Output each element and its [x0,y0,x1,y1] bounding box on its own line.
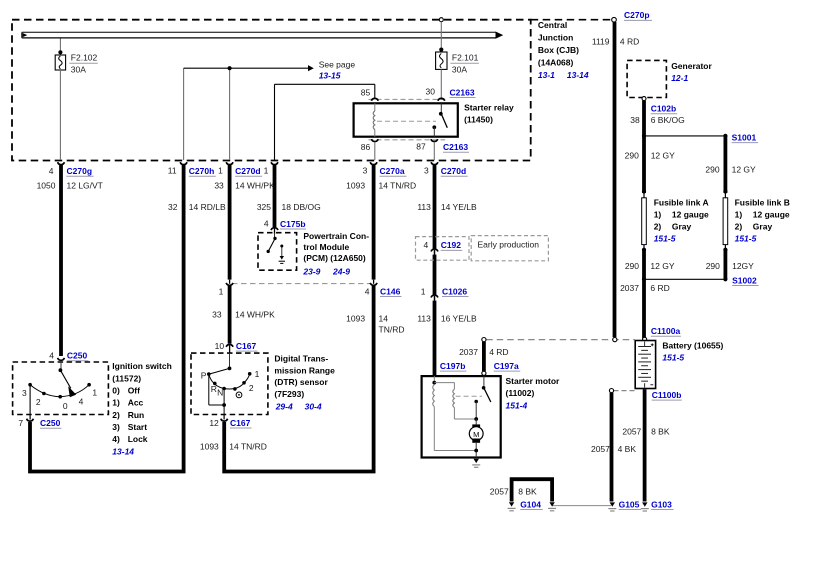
connector C197a label [494,361,521,371]
svg-text:Central: Central [538,20,567,30]
starter solenoid mechanical link [456,395,482,397]
svg-text:14 YE/LB: 14 YE/LB [441,202,477,212]
connector C250 arrow (pin 4) [58,358,65,360]
wire fuse F2.101 to relay pin 30 [440,69,442,98]
wire C270d pin3 middle segment [433,255,437,295]
starter relay C2163 connector dashes (bottom) [369,139,446,141]
connector arrow at CJB exit C175b feed [271,162,278,164]
DTR contact D arc dot [233,387,237,391]
wire label 1093 14 TN/RD (upper) [346,181,416,191]
svg-text:Ignition switch: Ignition switch [112,361,172,371]
svg-text:(DTR) sensor: (DTR) sensor [274,377,328,387]
starter motor name label [506,376,561,410]
connector C1100b label [652,390,682,400]
ignition switch contact 2 [42,392,46,396]
svg-text:1): 1) [735,209,743,219]
svg-text:Starter relay: Starter relay [464,103,514,113]
svg-text:C270d: C270d [441,166,467,176]
svg-text:38: 38 [630,115,640,125]
wire label 2057 8 BK (G104) [490,486,537,496]
wire fuse F2.102 to C270g [59,70,61,160]
wire battery positive to starter dashed (2037 4 RD) [486,339,635,341]
fuse F2.102 value label [69,53,98,75]
svg-text:10: 10 [215,341,225,351]
wire label 1050 12 LG/VT [37,181,103,191]
svg-text:P: P [201,370,207,380]
starter relay coil [373,103,375,136]
svg-text:3: 3 [363,166,368,176]
svg-text:Fusible link A: Fusible link A [654,197,709,207]
svg-text:Acc: Acc [128,398,144,408]
node S1001 tie line [644,135,725,137]
svg-text:1093: 1093 [200,442,219,452]
starter relay mechanical link [377,120,436,122]
svg-text:14 WH/PK: 14 WH/PK [235,310,275,320]
svg-text:Starter motor: Starter motor [506,376,561,386]
wire bus to fuse F2.102 [59,39,61,56]
svg-text:C197b: C197b [440,361,466,371]
svg-text:2057: 2057 [622,427,641,437]
junction C270d riser / see-page net [228,66,232,70]
svg-text:113: 113 [417,202,431,212]
wire label 1119 4 RD [592,37,639,47]
svg-text:S1001: S1001 [732,132,757,142]
wire label 113 16 YE/LB [417,314,477,324]
connector C167 label (bottom) [209,418,251,428]
svg-text:S1002: S1002 [732,275,757,285]
ignition switch contact 0 [58,395,62,399]
connector arrow at CJB exit C270d pin1 [226,162,233,164]
svg-text:1050: 1050 [37,181,56,191]
svg-text:(14A068): (14A068) [538,58,574,68]
ring junction C270p wire on 4 RD feed [613,338,617,342]
svg-text:12 gauge: 12 gauge [672,209,709,219]
battery name label [662,340,723,362]
wire ignition switch pin 7 to C270h (32 14 RD/LB) [30,165,184,472]
wire generator to S1001 junction (38 6 BK/OG) [642,101,646,193]
svg-text:C250: C250 [67,351,88,361]
svg-text:1093: 1093 [346,181,365,191]
starter feed pigtail wire [482,342,486,371]
wire label 325 18 DB/OG [257,202,321,212]
junction at fuse F2.102 input [58,50,62,54]
connector C167 label (top) [215,341,258,351]
ring at 4 BK wire top [609,389,613,393]
svg-text:C270h: C270h [189,166,215,176]
wire to G105 (2057 4 BK) [610,393,614,502]
connector C1026 label [421,286,469,296]
wire fusible link A to S1002 [642,249,646,341]
svg-text:1): 1) [112,398,120,408]
connector C250 label (bottom) [18,418,61,428]
svg-text:Battery (10655): Battery (10655) [662,340,723,350]
ground tie line G104 to G105 [552,505,611,507]
svg-text:12GY: 12GY [732,261,754,271]
svg-text:12 GY: 12 GY [732,164,756,174]
svg-text:4: 4 [79,397,84,407]
svg-text:13-15: 13-15 [319,70,341,80]
svg-text:Digital Trans-: Digital Trans- [274,354,328,364]
wire CJB top edge to fuse F2.101 [440,22,442,52]
fusible link A label [654,197,709,243]
svg-text:30A: 30A [71,65,86,75]
svg-text:12 LG/VT: 12 LG/VT [67,181,103,191]
svg-text:1): 1) [654,209,662,219]
starter solenoid pull-in coil [433,385,435,407]
svg-text:Run: Run [128,410,145,420]
wire C270d pin3 lower segment to starter motor [433,301,437,376]
starter coil1 return wire [434,407,476,451]
ignition switch name and positions [112,361,172,456]
connector C146 arrow on TN/RD wire [370,280,377,286]
wire battery negative to G103 (2057 8 BK) [643,389,647,501]
DTR contact N [222,387,226,391]
DTR sensor rotor [210,353,232,374]
See page reference text [319,59,356,80]
svg-text:8 BK: 8 BK [518,486,537,496]
svg-text:C270g: C270g [67,166,93,176]
starter relay C2163 connector dashes (top) [369,98,446,100]
svg-text:(PCM) (12A650): (PCM) (12A650) [303,253,366,263]
DTR contact R [213,382,217,386]
ring terminal at CJB top edge for fuse F2.101 feed [439,18,443,22]
wire label 290 12 GY (link A top) [625,150,676,160]
ground G104 label [520,499,543,509]
svg-text:1: 1 [421,286,426,296]
svg-text:C1100a: C1100a [651,326,681,336]
starter relay contact to pin 87 [432,125,436,136]
DTR sensor contact arc [209,374,250,389]
battery BT1 (10655) [635,341,655,389]
svg-text:32: 32 [168,202,178,212]
ignition switch contact arc [30,385,89,397]
starter solenoid hold-in coil [453,389,455,407]
wire label 290 12GY (link B bottom) [706,261,754,271]
svg-text:12-1: 12-1 [671,73,688,83]
wire C270d pin3 upper segment [433,165,437,249]
wire fusible link B to S1002 [724,249,728,279]
svg-text:4: 4 [365,286,370,296]
ground G104 left symbol [508,502,516,511]
connector arrow at CJB exit C270a [370,162,377,164]
svg-text:86: 86 [361,142,371,152]
svg-text:1093: 1093 [346,314,365,324]
svg-text:290: 290 [705,164,719,174]
wire relay pin 87 to CJB edge [433,142,435,160]
svg-text:C102b: C102b [651,104,677,114]
svg-text:1: 1 [218,166,223,176]
svg-text:(11450): (11450) [464,115,493,125]
junction at S1002 left [642,277,646,281]
DTR sensor U3 (7F293) dashed box [191,353,268,414]
svg-text:Off: Off [128,385,140,395]
svg-text:2: 2 [249,383,254,393]
ignition switch contact 3 [28,383,32,387]
svg-text:Early production: Early production [478,239,540,249]
svg-text:G103: G103 [651,499,672,509]
connector C250 label (top) [49,351,88,361]
svg-text:4: 4 [264,218,269,228]
svg-text:C2163: C2163 [443,142,468,152]
svg-text:Gray: Gray [672,221,692,231]
ring at starter C197a [482,371,486,375]
svg-text:14 WH/PK: 14 WH/PK [235,181,275,191]
svg-text:13-14: 13-14 [567,70,589,80]
svg-text:Gray: Gray [753,221,773,231]
svg-text:290: 290 [706,261,720,271]
connector C175b label [264,218,306,229]
connector C2163 label (bottom) [443,142,469,152]
connector C1100a label [651,326,681,336]
svg-text:151-4: 151-4 [506,400,528,410]
svg-text:Fusible link B: Fusible link B [735,197,790,207]
svg-text:C192: C192 [441,240,462,250]
wire S1001 to fusible link B [724,136,728,193]
starter motor M symbol [469,424,483,442]
wire C270h riser inside CJB [183,68,185,160]
battery feed ring at C1100a [643,337,647,341]
wire ignition contact 3 to pin 7 [29,385,31,415]
junction above fusible link A [642,189,646,193]
Early production note box [471,236,548,261]
generator name label [671,61,712,83]
ignition switch rotor [59,362,77,397]
svg-text:4: 4 [49,351,54,361]
ground G103 symbol [641,502,649,511]
wire C270d pin1 lower segment to C167 pin10 (33 14 WH/PK) [228,286,232,344]
wire C270d pin1 upper segment [228,165,232,280]
svg-text:Junction: Junction [538,33,573,43]
node S1002 label [732,275,759,285]
node S1001 [723,134,727,138]
connector C192 dashed box [416,237,470,261]
svg-text:2057: 2057 [490,486,509,496]
wire label 290 12 GY (link A bottom) [625,261,675,271]
wire C270p to battery junction (1119 4 RD) [613,22,617,337]
PCM U2 dashed box [258,233,297,271]
starter relay pin 30 arrow [438,98,445,100]
wire label 33 14 WH/PK (upper) [214,181,275,191]
DTR contact 1 [248,372,252,376]
wire C175b feed (325 18 DB/OG) [273,165,277,227]
svg-text:151-5: 151-5 [654,234,676,244]
connector C192 arrow [431,249,438,255]
fusible link B symbol [723,192,728,252]
starter motor ground return [474,443,478,458]
ignition switch contact 1 [87,383,91,387]
wire label 2057 4 BK [591,444,636,454]
svg-text:2): 2) [654,221,662,231]
net PCM C175b to relay pin 85 [275,84,375,160]
svg-text:30: 30 [426,87,436,97]
wire label 1093 14 TN/RD (middle) [346,314,404,335]
svg-text:1: 1 [255,369,260,379]
generator G1 dashed box [627,60,666,97]
svg-text:151-5: 151-5 [735,234,757,244]
wire DTR contacts P and N to pin 12 [209,374,226,414]
svg-text:Start: Start [128,422,148,432]
svg-text:24-9: 24-9 [332,267,350,277]
svg-text:33: 33 [214,181,224,191]
wire label 2037 6 RD [620,283,670,293]
connector C270p ring [612,17,617,22]
connector C175b arrow [271,228,278,234]
svg-text:4 RD: 4 RD [620,37,639,47]
connector arrow at CJB exit C270g [58,162,65,164]
svg-text:33: 33 [212,310,222,320]
svg-text:0): 0) [112,385,120,395]
svg-text:Generator: Generator [671,61,712,71]
svg-text:(11572): (11572) [112,373,141,383]
wire C270d riser inside CJB [229,68,231,160]
junction below fusible link A [642,248,646,252]
starter motor contact [474,400,478,425]
svg-text:12 GY: 12 GY [650,261,674,271]
svg-text:C146: C146 [380,286,401,296]
connector C270g label [49,166,94,176]
svg-text:3): 3) [112,422,120,432]
svg-text:23-9: 23-9 [302,267,320,277]
svg-text:M: M [473,430,479,439]
starter solenoid switch [482,376,491,402]
svg-text:4: 4 [423,240,428,250]
starter motor case ground [472,459,480,468]
CJB label text [538,20,589,80]
starter coil2 to motor wire [454,408,476,419]
wire label 1093 14 TN/RD (lower) [200,442,267,452]
connector C146 dashed line [232,283,371,285]
fuse F2.102 [55,55,65,70]
svg-text:2057: 2057 [591,444,610,454]
svg-text:14: 14 [379,314,389,324]
svg-text:6 BK/OG: 6 BK/OG [651,115,685,125]
ignition switch S1 (11572) dashed box [13,362,109,415]
svg-text:29-4: 29-4 [275,402,293,412]
svg-text:30A: 30A [452,64,467,74]
connector C197b label [440,361,467,371]
svg-text:Powertrain Con-: Powertrain Con- [303,231,369,241]
svg-text:2037: 2037 [459,347,478,357]
svg-text:16 YE/LB: 16 YE/LB [441,314,477,324]
wire DTR pin12 to C270a lower run [224,286,373,472]
svg-text:7: 7 [18,418,23,428]
Central Junction Box (CJB) dashed outline [12,20,531,161]
svg-text:13-1: 13-1 [538,70,555,80]
svg-text:14 TN/RD: 14 TN/RD [229,442,267,452]
junction above fusible link B [723,189,727,193]
svg-text:13-14: 13-14 [112,446,134,456]
connector C270h label [168,166,216,177]
svg-text:(7F293): (7F293) [274,389,304,399]
starter relay U1 (11450) box [354,103,458,136]
svg-text:trol Module: trol Module [303,242,349,252]
svg-text:18 DB/OG: 18 DB/OG [282,202,321,212]
svg-text:0: 0 [63,401,68,411]
wire C270g to ignition switch (1050 12 LG/VT) [59,165,63,356]
junction below fusible link B [723,248,727,252]
wire label 32 14 RD/LB [168,202,226,212]
svg-text:4): 4) [112,434,120,444]
svg-text:4 BK: 4 BK [618,444,637,454]
svg-text:C270a: C270a [380,166,405,176]
wire relay pin 86 to CJB edge [374,142,376,160]
connector C270p label [624,10,652,20]
connector arrow at CJB exit C270d pin3 [431,162,438,164]
svg-text:8 BK: 8 BK [651,427,670,437]
wire label 33 14 WH/PK (lower) [212,310,275,320]
svg-text:C2163: C2163 [450,87,475,97]
svg-text:C167: C167 [236,341,257,351]
PCM internal switch [267,233,277,253]
svg-text:290: 290 [625,150,639,160]
starter relay pin 86 arrow [371,139,378,141]
svg-text:C197a: C197a [494,361,519,371]
ground strap G104 jumper (2057 8 BK) [512,479,552,501]
junction at S1001 left [642,134,646,138]
connector C146 arrow on WH/PK wire [226,280,233,286]
svg-text:3: 3 [424,166,429,176]
connector C167 arrow (pin 12) [221,415,228,422]
starter solenoid feed junction [432,376,454,389]
node S1002 tie line [644,278,725,280]
svg-text:12: 12 [209,418,219,428]
svg-text:4 RD: 4 RD [489,347,508,357]
connector C102b label [651,104,678,114]
svg-text:Lock: Lock [128,434,148,444]
connector C167 arrow (pin 10) [226,344,233,353]
fuse F2.101 value label [450,53,479,75]
svg-text:1: 1 [219,286,224,296]
ground G103 label [651,499,674,509]
svg-text:2): 2) [735,221,743,231]
node S1002 [723,277,727,281]
svg-text:2): 2) [112,410,120,420]
connector arrow at CJB exit C270h [180,162,187,164]
svg-text:F2.101: F2.101 [452,53,479,63]
wire label 2057 8 BK (battery) [622,427,669,437]
svg-text:C175b: C175b [280,219,306,229]
DTR sensor name label [274,354,335,412]
svg-text:1: 1 [92,388,97,398]
starter relay pin 87 arrow [431,139,438,141]
junction at fuse F2.101 input [439,48,443,52]
svg-text:See page: See page [319,59,356,69]
svg-text:mission Range: mission Range [274,365,335,375]
fusible link B label [735,197,790,243]
svg-text:N: N [217,387,223,397]
node S1001 label [732,132,759,142]
svg-text:290: 290 [625,261,639,271]
svg-text:87: 87 [416,142,426,152]
connector C2163 label (top) [450,87,476,97]
ground G104 right symbol [548,502,556,511]
svg-text:3: 3 [22,388,27,398]
connector C270a label [363,166,407,177]
svg-text:C167: C167 [230,418,251,428]
svg-text:30-4: 30-4 [305,402,322,412]
svg-text:12 GY: 12 GY [651,150,675,160]
ignition switch position labels [22,388,97,411]
starter relay name label [464,103,514,125]
dashed net from CJB to connector C270p [531,19,611,21]
connector C270d pin3 label [424,166,468,177]
svg-text:R: R [211,384,217,394]
starter relay pin 85 arrow [371,98,378,100]
svg-text:C1100b: C1100b [652,390,682,400]
ring at starter feed corner [482,338,486,342]
svg-text:G104: G104 [520,499,541,509]
connector C250 arrow (pin 7) [27,415,34,422]
